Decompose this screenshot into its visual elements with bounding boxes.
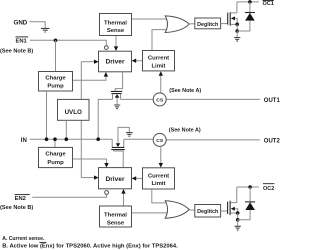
svg-text:(See Note B): (See Note B): [0, 48, 33, 54]
wire UVLO to IN rail: [65, 120, 67, 139]
deglitch U11 box: [195, 205, 221, 218]
wire current limit 2 to driver2: [136, 177, 143, 179]
svg-text:CS: CS: [156, 138, 164, 144]
wire EN2 to driver2 bubble: [32, 194, 106, 197]
OR gate 1: [165, 16, 189, 33]
svg-text:Current: Current: [148, 56, 169, 62]
inverter bubble on driver2 enable: [105, 191, 109, 195]
Q3 source stub: [123, 139, 125, 147]
arrowhead into driver2 right: [132, 176, 137, 180]
diode D2: [238, 187, 255, 220]
svg-text:EN1: EN1: [16, 38, 28, 44]
svg-text:Current: Current: [148, 173, 169, 179]
deglitch U6 box: [195, 18, 221, 29]
wire UVLO enable to driver1: [81, 61, 94, 63]
ground symbol (Q1 source): [236, 31, 238, 37]
OC2 pin label (overbar): [263, 184, 274, 192]
arrowhead into driver1 left: [94, 60, 99, 64]
svg-text:Driver: Driver: [105, 59, 124, 66]
transistor Q3 (power FET 2) drain stub: [111, 139, 113, 147]
wire CS1 to OUT1: [166, 98, 260, 100]
Q3 channel bar: [112, 146, 125, 148]
svg-text:UVLO: UVLO: [65, 109, 82, 116]
svg-text:(See Note B): (See Note B): [0, 205, 33, 211]
junction Q4 source node: [236, 211, 240, 215]
junction Q4 ground node: [236, 218, 240, 222]
wire IN rail to charge pump 2: [54, 139, 56, 147]
svg-text:Limit: Limit: [151, 181, 165, 187]
svg-text:Charge: Charge: [45, 152, 66, 158]
svg-text:OUT1: OUT1: [264, 98, 280, 104]
svg-text:Thermal: Thermal: [104, 20, 127, 26]
transistor Q1 (OC1 open-drain FET) gate bar: [227, 13, 229, 25]
driver U8 box: [99, 168, 132, 189]
current limit U5 box: [143, 51, 175, 71]
svg-text:Limit: Limit: [151, 64, 165, 70]
svg-text:Thermal: Thermal: [104, 213, 127, 219]
svg-text:Charge: Charge: [45, 76, 66, 82]
svg-text:Deglitch: Deglitch: [197, 22, 218, 28]
wire IN rail to charge pump 1: [46, 91, 48, 139]
wire OR gate 1 to deglitch 1: [189, 23, 195, 25]
wire thermal sense 2 to driver2: [123, 193, 125, 206]
wire deglitch 1 to Q1 gate: [221, 23, 228, 25]
svg-text:B. Active low (Enx) for TPS206: B. Active low (Enx) for TPS2060. Active …: [2, 244, 178, 250]
Q2 source stub: [120, 94, 122, 100]
OC1 pin label (overbar): [263, 1, 274, 7]
svg-text:OC2: OC2: [263, 186, 274, 192]
wire thermal sense 2 to OR gate 2: [132, 212, 169, 214]
junction Q1 ground node: [235, 29, 239, 33]
svg-text:GND: GND: [14, 19, 28, 26]
wire CS1 to current limit 1: [160, 76, 162, 94]
transistor Q1 channel bar: [229, 12, 231, 26]
Q4 source stub: [231, 212, 238, 214]
Q2 drain stub: [112, 94, 114, 100]
junction Q1 source node: [235, 23, 239, 27]
wire UVLO to driver1 and driver2 enables: [80, 62, 82, 178]
wire thermal sense 1 to driver1: [115, 36, 117, 48]
driver U2 box: [99, 51, 132, 72]
wire charge pump 2 to driver2: [73, 159, 107, 163]
note B text: [2, 242, 178, 249]
junction IN rail node 3: [65, 137, 69, 141]
wire CS2 to OUT2: [166, 139, 260, 141]
arrowhead into current limit 1 bottom: [159, 71, 163, 76]
Q4 drain stub and riser to OC2 rail: [231, 187, 237, 203]
arrowhead into driver1 right: [132, 59, 137, 63]
thermal sense U9 box: [100, 206, 132, 227]
wire thermal sense 1 to OR gate 1: [132, 18, 169, 20]
wire OR gate 2 to deglitch 2: [189, 209, 195, 211]
UVLO U4 box: [58, 99, 90, 120]
arrowhead into driver1 top: [114, 46, 118, 51]
arrowhead into driver2 top: [104, 163, 108, 168]
junction OC1 rail / diode D1: [248, 0, 252, 4]
wire current limit 1 to driver1: [136, 60, 143, 62]
diode D1: [237, 2, 255, 31]
current limit U10 box: [143, 168, 175, 189]
svg-text:Deglitch: Deglitch: [197, 209, 218, 215]
svg-text:Pump: Pump: [47, 84, 64, 90]
wire deglitch 2 to Q4 gate: [221, 210, 228, 212]
wire driver1 to Q2 gate: [115, 72, 122, 91]
svg-text:EN2: EN2: [15, 196, 26, 202]
junction IN rail node 1: [45, 137, 49, 141]
Q4 body wire: [235, 209, 238, 213]
svg-text:OUT2: OUT2: [264, 139, 280, 145]
charge pump U3 box: [39, 72, 73, 92]
junction IN rail node 4: [96, 137, 100, 141]
arrowhead into driver2 bottom: [121, 189, 125, 194]
svg-text:Pump: Pump: [47, 160, 64, 166]
EN1 pin label (overbar): [16, 37, 29, 45]
junction OC2 rail / diode D2: [248, 185, 252, 189]
wire current limit 2 to OR gate 2: [152, 189, 168, 203]
svg-text:OC1: OC1: [263, 1, 274, 7]
arrowhead into driver2 left: [94, 175, 99, 179]
inverter bubble on driver1 enable: [104, 46, 108, 50]
wire Q2 source to CS1: [121, 98, 154, 100]
ground symbol (Q3 body): [126, 133, 133, 137]
Q2 body wire to ground: [116, 97, 118, 104]
transistor Q4 channel bar: [229, 201, 231, 215]
arrowhead into current limit 2 top: [159, 163, 163, 168]
svg-text:Sense: Sense: [107, 28, 125, 34]
OR gate 2: [165, 201, 189, 219]
svg-text:A. Current sense.: A. Current sense.: [2, 236, 45, 242]
transistor Q2 (power FET 1) gate bar: [111, 90, 123, 92]
current sense CS1 circle: [153, 93, 166, 106]
wire Q3 gate to driver2: [114, 150, 124, 168]
svg-text:Driver: Driver: [105, 176, 124, 183]
transistor Q4 (OC2 open-drain FET) gate bar: [227, 202, 229, 215]
wire GND to ground: [30, 22, 46, 28]
OC2 rail wire: [237, 186, 259, 188]
ground symbol (Q2 body): [114, 105, 120, 109]
Q1 source stub: [231, 23, 238, 25]
Q2 body arrow: [115, 94, 119, 98]
svg-text:(See Note A): (See Note A): [169, 127, 201, 133]
charge pump U7 box: [39, 147, 73, 167]
Q1 body wire: [235, 18, 237, 24]
transistor Q2 channel bar: [111, 93, 121, 95]
EN2 pin label (overbar): [15, 195, 30, 203]
arrowhead into driver1 bottom: [104, 72, 108, 77]
wire EN1 to charge pump 1: [55, 40, 57, 71]
OC1 rail wire: [237, 1, 259, 3]
svg-text:Sense: Sense: [107, 220, 125, 226]
Q4 body arrow: [231, 207, 235, 211]
wire current limit 1 to OR gate 1: [152, 30, 168, 51]
ground symbol (GND pin): [41, 28, 50, 32]
ground symbol (Q4 source): [237, 220, 239, 226]
IN rail wire: [30, 138, 113, 140]
junction IN rail node 2: [53, 137, 57, 141]
wire Q2 drain to IN rail: [98, 99, 112, 139]
current sense CS2 circle: [153, 133, 166, 146]
Q3 body arrow: [116, 143, 120, 147]
svg-text:CS: CS: [156, 98, 164, 104]
wire UVLO enable to driver2: [81, 177, 94, 179]
wire Q3 source to CS2: [124, 138, 154, 141]
Q3 gate bar: [111, 149, 125, 151]
svg-text:IN: IN: [21, 138, 27, 144]
wire Q1 source to ground node: [236, 24, 238, 31]
Q3 body wire to ground: [118, 127, 129, 143]
wire charge pump 1 to driver1: [73, 76, 106, 80]
wire CS2 to current limit 2: [160, 146, 162, 163]
wire Q4 source to ground node: [237, 213, 239, 220]
junction EN1 node: [54, 39, 58, 43]
Q1 drain stub and riser to OC1 rail: [231, 2, 237, 13]
wire EN1 to driver1 bubble: [30, 40, 106, 45]
svg-text:(See Note A): (See Note A): [169, 88, 201, 94]
Q1 body arrow: [231, 16, 235, 20]
thermal sense U1 box: [100, 14, 132, 36]
